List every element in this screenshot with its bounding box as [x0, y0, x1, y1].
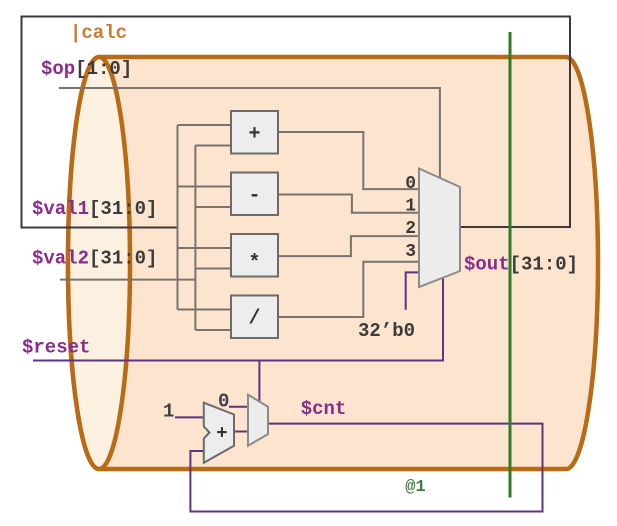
svg-text:3: 3: [405, 242, 416, 262]
$reset wire to big mux bottom select: [33, 279, 443, 361]
svg-text:|calc: |calc: [70, 22, 127, 44]
wire v1 to subtractor top input: [178, 186, 232, 188]
wire v2 to multiplier bottom input: [195, 268, 231, 270]
op box multiplier "*": [231, 234, 278, 277]
green stage marker line @1: [509, 32, 512, 498]
op box subtractor "-": [231, 173, 278, 216]
svg-text:+: +: [248, 123, 260, 146]
svg-text:+: +: [216, 423, 227, 445]
constant 0 wire into small mux input 0: [229, 406, 248, 408]
small mux M2 (counter reset select): [248, 395, 268, 446]
op box divider "/": [231, 296, 278, 339]
svg-text:$op[1:0]: $op[1:0]: [41, 58, 132, 80]
svg-text:0: 0: [218, 391, 229, 413]
wire subtractor output to mux input 1: [278, 195, 419, 213]
svg-text:$cnt: $cnt: [301, 398, 347, 420]
svg-text:*: *: [248, 252, 260, 275]
op box adder "+": [231, 111, 278, 154]
$cnt wire and feedback loop (>>1$cnt): [190, 424, 542, 512]
wire v2 to adder+ bottom input: [195, 145, 231, 147]
wire v2 to divider bottom input: [195, 329, 231, 331]
wire v1 to multiplier top input: [178, 247, 232, 249]
svg-text:2: 2: [405, 219, 416, 239]
pipeline cylinder left end cap ellipse: [68, 57, 130, 469]
svg-text:$out[31:0]: $out[31:0]: [464, 254, 578, 276]
adder A1 output wire to small mux: [234, 431, 248, 433]
$out feedback loop wire (>>1$out): [22, 17, 571, 228]
svg-text:-: -: [248, 185, 260, 208]
$reset branch wire down to small mux select: [258, 361, 260, 402]
wire v1 to adder+ top input: [178, 124, 232, 126]
wire divider output to mux input 3: [278, 262, 419, 317]
wire v1 to divider top input: [178, 309, 232, 311]
32'b0 constant stub wire into mux default input: [406, 272, 419, 309]
mux M1 (result select): [419, 169, 460, 288]
constant 1 wire into adder A1: [175, 416, 205, 418]
svg-text:/: /: [248, 308, 260, 331]
$op wire with select into mux M1: [59, 88, 440, 179]
pipeline |calc cylinder body: [68, 57, 598, 469]
$val2 wire: [60, 279, 195, 281]
wire multiplier output to mux input 2: [278, 236, 419, 256]
svg-text:1: 1: [163, 401, 174, 423]
svg-text:@1: @1: [405, 478, 425, 497]
$val2 vertical bus v2: [194, 146, 196, 331]
svg-text:1: 1: [405, 197, 416, 217]
svg-text:$val1[31:0]: $val1[31:0]: [32, 198, 157, 220]
svg-text:32’b0: 32’b0: [358, 320, 415, 342]
adder A1 (counter increment): [204, 403, 234, 463]
wire v2 to subtractor bottom input: [195, 206, 231, 208]
$val1 vertical bus v1: [177, 125, 179, 310]
svg-text:$reset: $reset: [22, 337, 90, 359]
wire adder output to mux input 0: [278, 132, 419, 189]
svg-text:0: 0: [405, 174, 416, 194]
svg-text:$val2[31:0]: $val2[31:0]: [32, 248, 157, 270]
